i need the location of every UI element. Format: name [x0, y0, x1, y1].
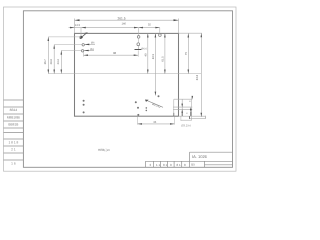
overall width dimension line (top) — [75, 17, 179, 21]
svg-text:8B14: 8B14 — [10, 108, 18, 112]
bottom-middle holes — [135, 101, 137, 103]
svg-text:55: 55 — [148, 23, 151, 26]
extension line: left edge extended up — [74, 19, 76, 34]
hole A1 — [80, 36, 82, 38]
right overall height dimension F — [195, 33, 202, 117]
inner vertical dimension A — [145, 33, 149, 73]
svg-text:1 1: 1 1 — [156, 163, 161, 167]
inner drawing frame — [23, 11, 232, 168]
svg-text:23.4: 23.4 — [57, 59, 60, 65]
svg-text:Ø4: Ø4 — [90, 48, 94, 51]
svg-text:36.7: 36.7 — [44, 59, 47, 65]
extension line between holes B1 and B2 — [138, 38, 140, 43]
extension line from hole B3 up to chain — [159, 28, 161, 34]
hole C (mid right) — [158, 95, 160, 97]
hole A2 — [82, 44, 84, 46]
small dim below bottom edge right — [181, 116, 205, 128]
extension line: part top edge extended right — [179, 32, 203, 34]
left table tiny text rows — [7, 108, 20, 165]
svg-text:261.5: 261.5 — [118, 17, 126, 21]
leader for hole A3 — [84, 48, 94, 51]
part outline rectangle — [75, 33, 179, 116]
extension line from hole A1 up to chain — [80, 28, 82, 37]
svg-text:Ø6: Ø6 — [91, 41, 95, 44]
svg-text:IA. 1026: IA. 1026 — [192, 154, 208, 159]
horizontal dimension 98 inside part — [84, 51, 139, 56]
svg-text:B5: B5 — [191, 163, 195, 167]
svg-text:8 1: 8 1 — [177, 163, 182, 167]
diagonal leader with note (bottom middle) — [145, 100, 163, 110]
svg-text:75: 75 — [184, 52, 188, 56]
svg-text:BB81B: BB81B — [8, 122, 18, 126]
right vertical dimension E — [184, 33, 189, 73]
leader for hole A2 — [85, 41, 96, 45]
left vertical dimension 3 — [57, 51, 62, 74]
extension line hole A1 row to left dims — [48, 36, 80, 38]
left margin revision table — [4, 100, 24, 160]
svg-text:98: 98 — [113, 51, 117, 55]
extension lines for bottom dim — [137, 116, 139, 124]
svg-text:140: 140 — [122, 23, 127, 26]
inner vertical dimension B (down to hole C) — [152, 33, 156, 95]
long horizontal reference extension line — [48, 73, 201, 75]
title block text — [150, 154, 208, 167]
bottom-right dimension cluster — [173, 96, 193, 120]
leader with arrowhead for hole A1 — [80, 32, 89, 39]
hole B1 (top middle) — [137, 36, 140, 39]
svg-text:Ø6.6: Ø6.6 — [141, 48, 147, 51]
svg-text:1 6: 1 6 — [11, 161, 16, 165]
svg-text:35: 35 — [153, 121, 156, 124]
svg-text:Ø3.2X4: Ø3.2X4 — [181, 124, 191, 128]
leader for hole B2 — [135, 46, 148, 51]
hole A3 — [81, 50, 83, 52]
left vertical dimension 2 — [50, 45, 55, 74]
bottom dimension 35 — [138, 121, 175, 125]
svg-text:2 1: 2 1 — [11, 147, 16, 151]
hole B2 — [137, 43, 140, 46]
svg-text:M8B18Bt: M8B18Bt — [7, 115, 20, 119]
extension line hole A2 row to left dims — [54, 44, 82, 46]
svg-text:8 1: 8 1 — [163, 163, 168, 167]
title block — [146, 152, 233, 167]
extension line: part bottom edge extended right — [179, 115, 206, 117]
svg-text:83.8: 83.8 — [195, 74, 199, 80]
bottom-left hole column — [83, 100, 85, 102]
svg-text:HEB(-)m: HEB(-)m — [98, 148, 110, 152]
hole B3 (near top edge) — [159, 34, 162, 37]
top chain dimension line — [69, 23, 160, 29]
extension line for 98 dim left — [83, 52, 85, 57]
extension line hole A3 row to left dims — [61, 50, 81, 52]
svg-text:61.5: 61.5 — [162, 56, 165, 62]
svg-text:40: 40 — [145, 53, 148, 56]
svg-text:28.8: 28.8 — [50, 59, 53, 65]
extension line: right edge extended up — [178, 19, 180, 34]
extension line from hole B1 up to chain — [138, 28, 140, 36]
svg-text:40.5: 40.5 — [152, 53, 155, 59]
svg-text:1 8 1 8: 1 8 1 8 — [9, 140, 19, 144]
inner vertical dimension D — [162, 33, 166, 73]
left vertical dimension 1 — [44, 37, 49, 74]
svg-text:13.5: 13.5 — [75, 24, 81, 27]
outer sheet border — [4, 7, 237, 171]
svg-text:3.2: 3.2 — [85, 32, 89, 35]
extension line for 98 dim right — [137, 51, 139, 57]
